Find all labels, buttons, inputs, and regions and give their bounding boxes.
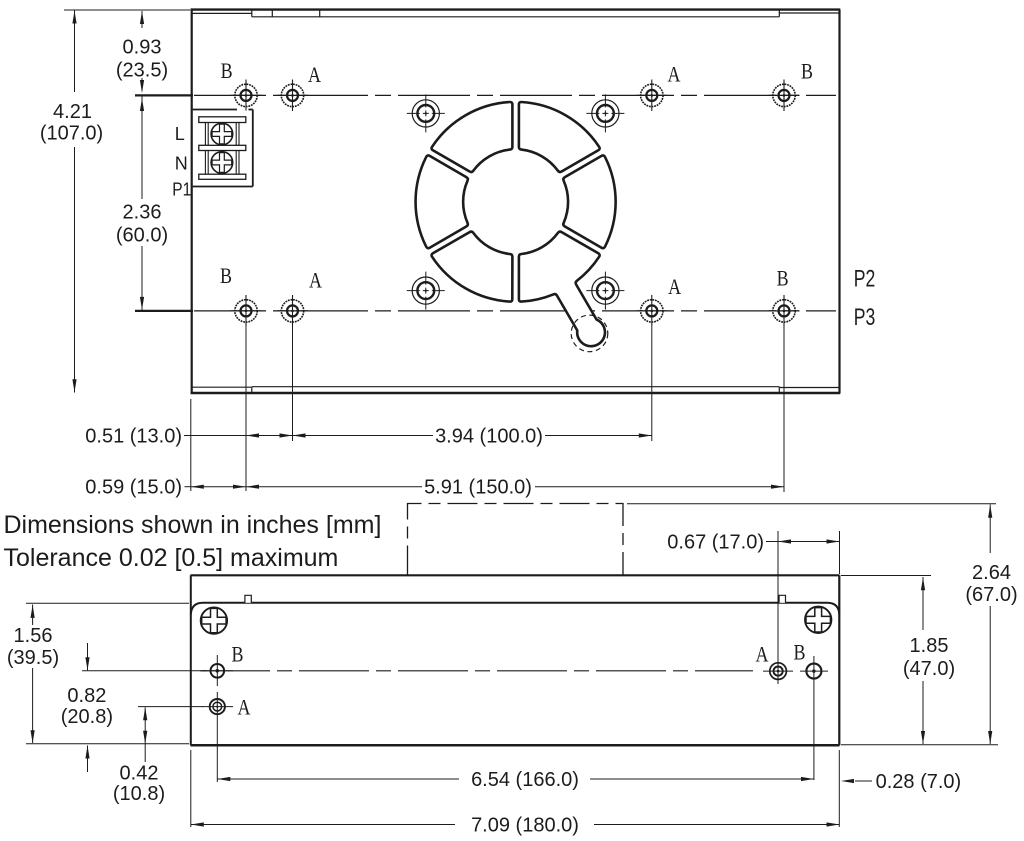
- mounting hole B bottom-left: [231, 295, 262, 326]
- extension line top edge left: [64, 9, 190, 11]
- extension line below hole B bottom-right: [783, 326, 785, 492]
- dimension 1.85 (47.0): [922, 577, 924, 630]
- extension line below hole A bottom-right: [651, 326, 653, 441]
- dimension 1.56 (39.5): [32, 605, 34, 626]
- tab mark left on top lip: [271, 9, 273, 18]
- svg-text:P3: P3: [854, 304, 876, 331]
- svg-text:(47.0): (47.0): [903, 658, 955, 680]
- mounting hole A bottom-right: [636, 295, 667, 326]
- svg-text:4.21: 4.21: [53, 101, 92, 123]
- side hole A left: [202, 692, 233, 782]
- side case left edge: [190, 575, 192, 745]
- svg-text:5.91 (150.0): 5.91 (150.0): [424, 477, 532, 499]
- fan mounting hole at (426,291): [407, 272, 445, 310]
- svg-text:N: N: [175, 154, 188, 174]
- dimension 4.21 (107.0) vertical line: [74, 10, 76, 92]
- svg-text:0.42: 0.42: [120, 763, 159, 785]
- extension line below chassis left edge: [190, 399, 192, 491]
- svg-text:A: A: [756, 642, 769, 667]
- dimension 3.94 (100.0): [293, 435, 434, 437]
- extension line 1.85 top: [841, 575, 931, 577]
- fan cutout sector upper-right: [519, 102, 600, 172]
- svg-text:P2: P2: [854, 266, 876, 293]
- svg-text:A: A: [668, 62, 681, 87]
- svg-text:(10.8): (10.8): [113, 783, 165, 805]
- side centerline: [200, 670, 753, 672]
- side case bottom edge: [191, 744, 840, 747]
- extension line below case left edge: [190, 750, 192, 827]
- svg-text:0.82: 0.82: [67, 685, 106, 707]
- fan cutout sector top-left: [432, 102, 513, 172]
- svg-text:0.67 (17.0): 0.67 (17.0): [667, 532, 764, 554]
- hidden fan guard outline (dashed): [408, 504, 624, 576]
- side case right edge: [838, 575, 840, 745]
- chassis bottom outer edge: [191, 392, 841, 395]
- svg-text:B: B: [221, 58, 233, 83]
- extension line bottom left: [26, 743, 189, 745]
- fan mounting hole at (605,113): [586, 94, 624, 132]
- extension line below hole B bottom-left: [245, 326, 247, 491]
- mounting hole A bottom-left: [277, 295, 308, 326]
- extension line below hole A bottom-left: [292, 326, 294, 441]
- dimension 0.28 (7.0): [855, 780, 872, 782]
- phillips screw right: [805, 607, 831, 633]
- svg-text:(20.8): (20.8): [61, 706, 113, 728]
- dimension 0.51 (13.0): [184, 435, 246, 437]
- dimension 0.93 (23.5) vertical line: [141, 11, 143, 28]
- extension line below case right edge: [838, 750, 840, 827]
- svg-text:1.85: 1.85: [910, 635, 949, 657]
- svg-text:Tolerance 0.02 [0.5] maximum: Tolerance 0.02 [0.5] maximum: [4, 544, 339, 572]
- mounting hole B bottom-right: [769, 295, 800, 326]
- extension line 2.64 top: [627, 503, 996, 505]
- fan cutout sector bottom with wire slot tail: [519, 232, 605, 347]
- tab mark right on top lip: [319, 9, 321, 18]
- svg-text:2.36: 2.36: [123, 202, 162, 224]
- terminal block P1: [193, 110, 253, 187]
- mounting hole A top-right: [636, 80, 667, 112]
- dimension 0.42 (10.8): [144, 707, 146, 762]
- svg-text:A: A: [309, 268, 322, 293]
- mounting hole B top-right: [769, 80, 800, 112]
- tab right on lip: [779, 595, 785, 603]
- side hole B right: [800, 656, 828, 780]
- fan cutout sector right: [563, 155, 615, 248]
- fan mounting hole at (605,291): [586, 272, 624, 310]
- svg-text:P1: P1: [172, 180, 191, 200]
- extension line 0.67 right: [839, 531, 841, 574]
- svg-text:B: B: [777, 266, 789, 291]
- mounting hole A top-left: [277, 80, 308, 112]
- chassis right edge: [838, 10, 840, 393]
- fan mounting hole at (426,113): [407, 94, 445, 132]
- svg-text:B: B: [794, 640, 806, 665]
- dimension 0.59 (15.0): [185, 486, 191, 488]
- extension line 0.67 left: [777, 531, 779, 684]
- fan cutout sector lower-left: [432, 232, 513, 302]
- extension line lip left: [26, 602, 189, 604]
- chassis top cover outer edge: [191, 8, 841, 10]
- svg-text:Dimensions shown in inches [mm: Dimensions shown in inches [mm]: [4, 511, 382, 539]
- dimension 0.82 (20.8): [87, 643, 89, 670]
- dimension 2.64 (67.0): [989, 505, 991, 554]
- svg-text:(67.0): (67.0): [965, 584, 1017, 606]
- extension line case bottom right: [841, 744, 998, 746]
- svg-text:B: B: [801, 59, 813, 84]
- dimension 7.09 (180.0): [191, 824, 455, 826]
- svg-text:B: B: [232, 642, 244, 667]
- svg-text:0.59 (15.0): 0.59 (15.0): [85, 477, 182, 499]
- chassis left edge: [191, 10, 193, 393]
- chassis top cover lip line: [192, 12, 252, 14]
- side case cover lip line: [191, 603, 840, 615]
- chassis bottom lip line: [192, 386, 252, 388]
- svg-text:(23.5): (23.5): [116, 60, 168, 82]
- svg-text:1.56: 1.56: [14, 625, 53, 647]
- dimension 6.54 (166.0): [217, 778, 459, 780]
- extension line hole B left: [82, 670, 207, 672]
- centerline bottom hole row: [135, 310, 193, 312]
- svg-text:(107.0): (107.0): [40, 123, 103, 145]
- svg-text:3.94 (100.0): 3.94 (100.0): [435, 426, 543, 448]
- extension line hole A left: [138, 706, 203, 708]
- svg-text:A: A: [238, 695, 251, 720]
- centerline top hole row: [135, 94, 193, 96]
- dashed circle around wire slot end: [571, 315, 608, 352]
- svg-text:0.93: 0.93: [123, 37, 162, 59]
- svg-text:6.54 (166.0): 6.54 (166.0): [471, 769, 579, 791]
- tab left on lip: [245, 595, 251, 603]
- dimension 0.67 (17.0): [766, 541, 840, 543]
- svg-text:A: A: [308, 62, 321, 87]
- svg-text:0.28 (7.0): 0.28 (7.0): [876, 771, 962, 793]
- svg-text:(60.0): (60.0): [116, 225, 168, 247]
- fan cutout sector left: [416, 155, 468, 248]
- svg-text:L: L: [175, 124, 185, 144]
- dimension 2.36 (60.0) vertical line: [141, 97, 143, 200]
- mounting hole B top-left: [231, 80, 262, 111]
- svg-text:A: A: [668, 274, 681, 299]
- side hole A right: [763, 663, 793, 680]
- svg-text:0.51 (13.0): 0.51 (13.0): [85, 426, 182, 448]
- svg-text:7.09 (180.0): 7.09 (180.0): [471, 815, 579, 837]
- svg-text:(39.5): (39.5): [7, 647, 59, 669]
- phillips screw left: [201, 607, 227, 633]
- svg-text:2.64: 2.64: [972, 562, 1011, 584]
- dimension 5.91 (150.0): [246, 486, 422, 488]
- side case top edge: [191, 574, 840, 576]
- side hole B left: [202, 655, 233, 686]
- svg-text:B: B: [220, 263, 232, 288]
